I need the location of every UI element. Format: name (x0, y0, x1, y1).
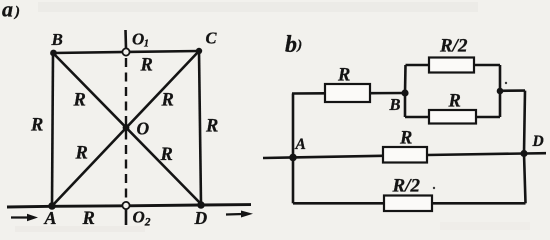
svg-text:R: R (399, 129, 412, 149)
label R (diag C-O) (161, 91, 174, 111)
node O (123, 124, 130, 131)
wire to R/2 box (406, 64, 430, 67)
node (right of parallel pair) (497, 88, 504, 95)
speck after bottom R/2 label (433, 187, 435, 189)
resistor R (top branch) (325, 84, 370, 102)
svg-text:R: R (30, 116, 43, 136)
wire diagonal B to D (53, 53, 201, 204)
svg-text:D: D (194, 208, 208, 228)
label R (left side) (30, 116, 43, 136)
label O (137, 119, 150, 139)
svg-text:B: B (389, 95, 401, 114)
wire bottom lead-in left (7, 205, 52, 209)
label R (top O1-C) (140, 56, 153, 76)
node O2 (open) (122, 202, 129, 209)
label R (right side) (205, 117, 218, 137)
wire bottom lead-out right (201, 203, 251, 206)
node A (48, 202, 56, 210)
current arrow out (right) (226, 211, 253, 218)
svg-text:A: A (44, 208, 57, 228)
label O1 (132, 30, 149, 50)
wire R/2 box to right corner (bottom) (432, 202, 526, 205)
label R (bottom A-O2) (82, 209, 95, 229)
wire R/2 box to right corner (474, 64, 500, 67)
label R (diag A-O) (75, 144, 88, 164)
label A (b) (295, 136, 306, 153)
label R (diag O-D) (160, 145, 173, 165)
wire B down to R branch (404, 93, 407, 117)
svg-text:R/2: R/2 (439, 36, 468, 57)
node O1 (open) (122, 48, 129, 55)
svg-text:R: R (82, 209, 95, 229)
label R/2 (bottom branch) (392, 176, 421, 197)
svg-text:R: R (337, 66, 350, 86)
wire dashed O1 to O2 (125, 58, 127, 200)
label B (51, 30, 63, 49)
resistor R/2 (bottom branch) (384, 196, 432, 212)
svg-text:R: R (205, 117, 218, 137)
label R (middle branch) (399, 129, 412, 149)
svg-text:R: R (448, 92, 461, 112)
wire main D right stub (524, 152, 546, 155)
wire lower R box to right corner (476, 116, 500, 119)
node C (196, 48, 202, 54)
figure a) label (2, 0, 20, 22)
svg-text:R: R (140, 56, 153, 76)
resistor R (lower parallel) (429, 110, 476, 124)
wire diagonal A to C (52, 51, 199, 206)
resistor R (middle branch) (383, 147, 427, 163)
svg-text:R: R (75, 144, 88, 164)
wire bottom O2 to D (126, 204, 201, 208)
svg-text:a): a) (2, 0, 20, 22)
label B (b) (389, 95, 401, 114)
wire down to D (524, 91, 525, 154)
svg-text:A: A (295, 136, 306, 153)
node D (b) (520, 150, 527, 157)
svg-text:B: B (51, 30, 63, 49)
label R (top branch) (337, 66, 350, 86)
label C (206, 29, 218, 48)
wire resistor R to node B (370, 92, 405, 95)
svg-text:R/2: R/2 (392, 176, 421, 197)
wire right side C to D (199, 51, 201, 204)
label O2 (133, 208, 151, 229)
node A (b) (289, 154, 297, 162)
node B (b) (401, 89, 408, 96)
wire node to down corner (500, 89, 525, 92)
wire bottom A to O2 (52, 204, 126, 207)
wire right corner up to node (499, 91, 502, 117)
current arrow in (left) (11, 214, 38, 221)
svg-text:O: O (137, 119, 150, 139)
wire B up to R/2 branch (404, 65, 407, 93)
wire main A to middle resistor (293, 156, 383, 158)
svg-text:R: R (160, 145, 173, 165)
wire bottom branch up to D (524, 154, 526, 204)
label R (diag B-O) (73, 91, 86, 111)
svg-text:D: D (532, 133, 544, 150)
label D (b) (532, 133, 544, 150)
svg-text:R: R (73, 91, 86, 111)
node D (197, 201, 205, 209)
wire left side B to A (52, 53, 53, 206)
label A (44, 208, 57, 228)
wire tick above O1 (124, 30, 127, 49)
label R (lower parallel) (448, 92, 461, 112)
wire right corner down to node (499, 65, 502, 91)
wire tick below O2 (125, 209, 128, 225)
wire top branch to resistor R (292, 92, 325, 95)
svg-text:R: R (161, 91, 174, 111)
speck above node (505, 82, 507, 84)
resistor R/2 (upper parallel) (429, 58, 474, 73)
wire bottom branch to R/2 box (293, 202, 384, 205)
wire top side B to C (53, 51, 199, 53)
label D (194, 208, 208, 228)
wire main middle resistor to D (427, 154, 524, 156)
svg-text:C: C (206, 29, 218, 48)
figure b) label (285, 32, 302, 58)
wire main A-D left stub (263, 156, 293, 159)
label R/2 (upper parallel) (439, 36, 468, 57)
wire to lower R box (405, 116, 429, 119)
wire A up to top branch (292, 94, 295, 158)
wire A down to bottom branch (292, 157, 295, 203)
node B (50, 50, 57, 57)
